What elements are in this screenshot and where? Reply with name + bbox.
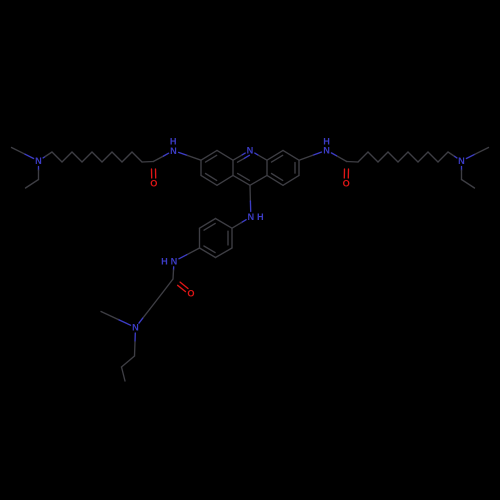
svg-text:H: H xyxy=(161,257,168,267)
svg-text:O: O xyxy=(150,179,157,189)
svg-text:O: O xyxy=(187,289,194,299)
svg-text:N: N xyxy=(247,212,254,222)
svg-text:N: N xyxy=(458,156,465,166)
svg-text:N: N xyxy=(35,156,42,166)
svg-text:N: N xyxy=(170,146,177,156)
svg-text:O: O xyxy=(343,179,350,189)
svg-text:N: N xyxy=(247,146,254,156)
svg-text:N: N xyxy=(132,323,139,333)
svg-text:H: H xyxy=(257,212,264,222)
svg-text:N: N xyxy=(323,145,330,155)
svg-text:H: H xyxy=(170,137,177,147)
svg-text:N: N xyxy=(171,257,178,267)
svg-text:H: H xyxy=(323,137,330,147)
